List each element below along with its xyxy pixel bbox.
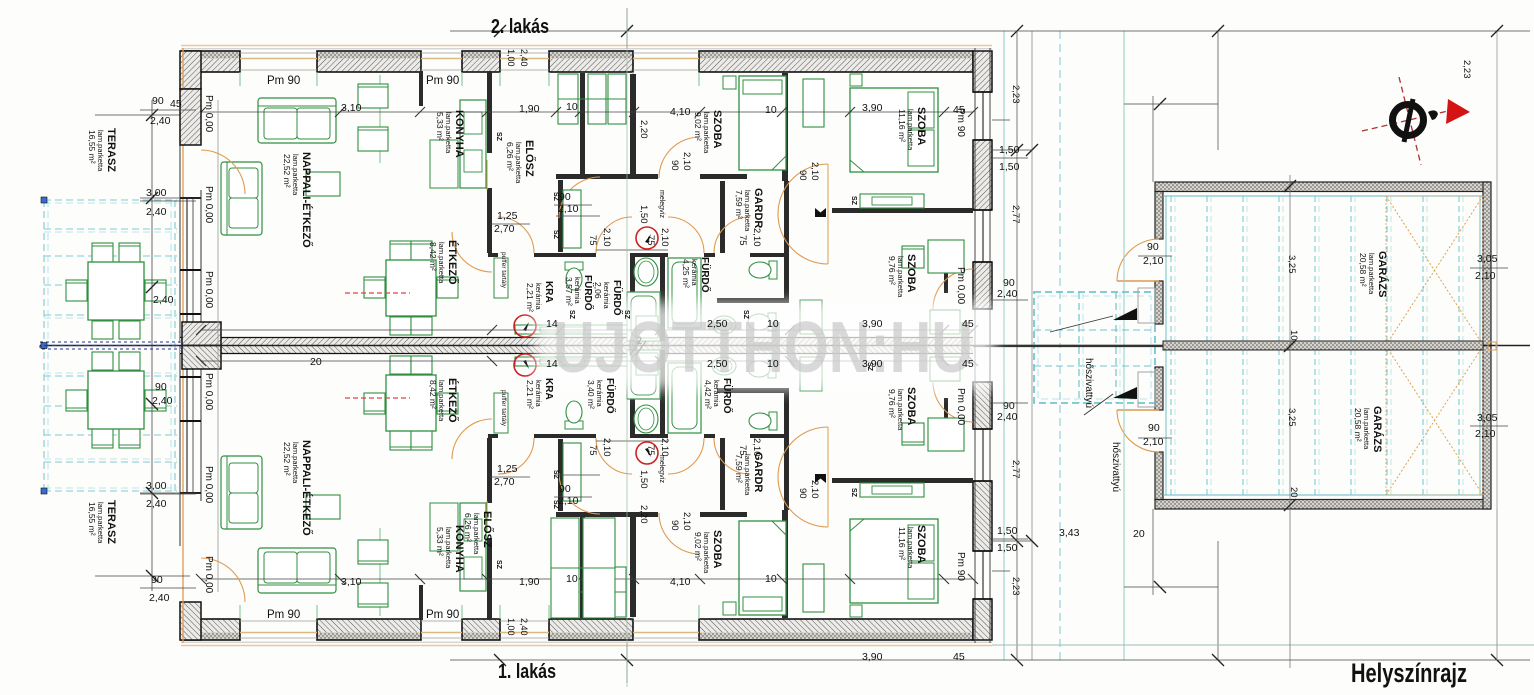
svg-text:SZ: SZ (568, 310, 575, 320)
svg-text:10: 10 (767, 318, 779, 330)
svg-text:3,90: 3,90 (862, 358, 883, 370)
svg-text:22,52 m²: 22,52 m² (282, 442, 292, 476)
svg-text:1,00: 1,00 (506, 618, 516, 636)
svg-text:1. lakás: 1. lakás (498, 661, 556, 683)
svg-text:2,40: 2,40 (997, 411, 1018, 423)
svg-text:3,25: 3,25 (1286, 408, 1297, 427)
svg-text:2,10: 2,10 (601, 438, 612, 457)
svg-text:TERASZ: TERASZ (105, 500, 117, 544)
svg-text:Pm 0,00: Pm 0,00 (955, 388, 966, 426)
svg-text:3,90: 3,90 (862, 102, 883, 114)
svg-text:GARDR: GARDR (752, 188, 764, 228)
svg-text:2,77: 2,77 (1010, 460, 1021, 479)
svg-text:9,76 m²: 9,76 m² (887, 256, 897, 285)
svg-text:SZOBA: SZOBA (915, 525, 927, 564)
svg-text:2,40: 2,40 (146, 206, 167, 218)
svg-text:NAPPALI-ÉTKEZŐ: NAPPALI-ÉTKEZŐ (300, 440, 313, 536)
svg-text:2,23: 2,23 (1461, 60, 1472, 79)
svg-text:Pm 0,00: Pm 0,00 (203, 466, 214, 504)
svg-text:90: 90 (797, 488, 808, 499)
svg-text:75: 75 (645, 445, 656, 456)
svg-text:7,59 m²: 7,59 m² (734, 190, 744, 219)
svg-text:2,40: 2,40 (519, 618, 529, 636)
svg-text:90: 90 (155, 381, 167, 393)
svg-text:2,21 m²: 2,21 m² (525, 283, 535, 312)
svg-text:16,55 m²: 16,55 m² (87, 130, 97, 164)
svg-text:Pm 90: Pm 90 (267, 75, 300, 87)
svg-text:90: 90 (1148, 422, 1160, 434)
svg-text:ÉTKEZŐ: ÉTKEZŐ (446, 378, 459, 423)
svg-text:GARDR: GARDR (752, 452, 764, 492)
svg-text:45: 45 (953, 104, 965, 116)
svg-text:2,10: 2,10 (809, 162, 820, 181)
svg-text:6,26 m²: 6,26 m² (505, 142, 515, 171)
svg-text:9,76 m²: 9,76 m² (887, 389, 897, 418)
svg-text:90: 90 (669, 520, 680, 531)
svg-text:1,25: 1,25 (497, 210, 518, 222)
svg-text:Pm 0,00: Pm 0,00 (203, 186, 214, 224)
svg-text:SZ: SZ (495, 560, 502, 570)
svg-text:SZOBA: SZOBA (905, 387, 917, 426)
svg-text:2,40: 2,40 (149, 592, 170, 604)
svg-text:2,10: 2,10 (1143, 255, 1164, 267)
svg-text:3,90: 3,90 (862, 651, 883, 663)
svg-text:90: 90 (1147, 241, 1159, 253)
svg-text:2,10: 2,10 (659, 228, 670, 247)
svg-text:TERASZ: TERASZ (105, 128, 117, 172)
svg-text:16,55 m²: 16,55 m² (87, 502, 97, 536)
svg-text:75: 75 (737, 235, 748, 246)
svg-text:1,50: 1,50 (997, 542, 1018, 554)
svg-text:3,57 m²: 3,57 m² (564, 277, 574, 306)
svg-text:8,42 m²: 8,42 m² (428, 242, 438, 271)
svg-text:1,00: 1,00 (506, 49, 516, 67)
svg-text:2,10: 2,10 (751, 438, 762, 457)
svg-text:NAPPALI-ÉTKEZŐ: NAPPALI-ÉTKEZŐ (300, 152, 313, 248)
svg-text:20: 20 (1288, 487, 1299, 498)
svg-text:Pm 0,00: Pm 0,00 (203, 373, 214, 411)
svg-text:SZOBA: SZOBA (915, 107, 927, 146)
svg-text:2,77: 2,77 (1010, 205, 1021, 224)
svg-text:2,20: 2,20 (638, 120, 649, 139)
svg-text:1,90: 1,90 (519, 103, 540, 115)
svg-text:2,10: 2,10 (1475, 270, 1496, 282)
svg-text:3,10: 3,10 (341, 576, 362, 588)
svg-text:2,21 m²: 2,21 m² (525, 380, 535, 409)
svg-text:hőszivattyú: hőszivattyú (1083, 358, 1094, 408)
svg-text:2,10: 2,10 (751, 228, 762, 247)
svg-text:SZ: SZ (552, 230, 559, 240)
svg-text:90: 90 (559, 483, 571, 495)
svg-text:KRA: KRA (543, 378, 554, 400)
svg-text:3,90: 3,90 (862, 318, 883, 330)
svg-text:45: 45 (962, 358, 974, 370)
svg-text:10: 10 (566, 573, 578, 585)
svg-text:2,10: 2,10 (809, 480, 820, 499)
svg-text:1,50: 1,50 (638, 470, 649, 489)
svg-text:90: 90 (669, 160, 680, 171)
svg-text:Pm 90: Pm 90 (955, 552, 966, 581)
svg-text:45: 45 (953, 651, 965, 663)
svg-text:KRA: KRA (543, 281, 554, 303)
svg-text:2,06: 2,06 (593, 282, 603, 299)
svg-text:Helyszínrajz: Helyszínrajz (1351, 658, 1467, 688)
svg-text:20,58 m²: 20,58 m² (1358, 253, 1368, 287)
svg-text:3,05: 3,05 (1477, 253, 1498, 265)
svg-text:FÜRDŐ: FÜRDŐ (611, 280, 624, 316)
svg-text:SZ: SZ (552, 470, 559, 480)
svg-text:3,40 m²: 3,40 m² (586, 380, 596, 409)
svg-text:75: 75 (645, 235, 656, 246)
svg-text:ELŐSZ: ELŐSZ (523, 140, 536, 177)
svg-text:1,50: 1,50 (638, 205, 649, 224)
svg-text:10: 10 (767, 358, 779, 370)
svg-text:2,70: 2,70 (494, 476, 515, 488)
svg-text:FÜRDŐ: FÜRDŐ (699, 257, 712, 293)
svg-text:3,10: 3,10 (341, 102, 362, 114)
svg-text:5,33 m²: 5,33 m² (435, 112, 445, 141)
svg-text:melegvíz: melegvíz (658, 190, 665, 219)
svg-text:10: 10 (566, 101, 578, 113)
svg-text:FÜRDŐ: FÜRDŐ (604, 378, 617, 414)
svg-text:Pm 0,00: Pm 0,00 (203, 556, 214, 594)
svg-text:10: 10 (765, 104, 777, 116)
svg-text:4,42 m²: 4,42 m² (703, 380, 713, 409)
svg-text:KONYHA: KONYHA (453, 110, 465, 158)
svg-text:2,10: 2,10 (659, 438, 670, 457)
svg-text:1,25: 1,25 (497, 463, 518, 475)
svg-text:2,40: 2,40 (153, 294, 174, 306)
svg-text:Pm 0,00: Pm 0,00 (955, 267, 966, 305)
svg-text:4,25 m²: 4,25 m² (681, 259, 691, 288)
svg-text:1,50: 1,50 (999, 161, 1020, 173)
svg-text:SZ: SZ (850, 488, 857, 498)
svg-text:SZOBA: SZOBA (711, 530, 723, 569)
svg-text:20,58 m²: 20,58 m² (1353, 408, 1363, 442)
svg-text:75: 75 (737, 445, 748, 456)
svg-text:2,50: 2,50 (707, 358, 728, 370)
svg-text:ÉTKEZŐ: ÉTKEZŐ (446, 240, 459, 285)
svg-text:10: 10 (1288, 330, 1299, 341)
svg-text:Pm 90: Pm 90 (426, 75, 459, 87)
svg-text:SZ: SZ (850, 196, 857, 206)
svg-text:1,50: 1,50 (997, 525, 1018, 537)
svg-text:90: 90 (151, 574, 163, 586)
svg-text:11,16 m²: 11,16 m² (897, 527, 907, 560)
svg-text:20: 20 (310, 356, 322, 368)
svg-text:FÜRDŐ: FÜRDŐ (721, 378, 734, 414)
svg-text:2,23: 2,23 (1010, 85, 1021, 104)
svg-text:75: 75 (587, 235, 598, 246)
svg-text:SZ: SZ (495, 132, 502, 142)
svg-text:2,50: 2,50 (707, 318, 728, 330)
svg-text:Pm 0,00: Pm 0,00 (203, 95, 214, 133)
svg-text:Pm 90: Pm 90 (267, 609, 300, 621)
svg-text:11,16 m²: 11,16 m² (897, 109, 907, 142)
svg-text:2,40: 2,40 (146, 498, 167, 510)
svg-text:ELŐSZ: ELŐSZ (481, 511, 494, 548)
svg-text:90: 90 (152, 95, 164, 107)
svg-text:SZ: SZ (552, 192, 559, 202)
svg-text:hőszivattyú: hőszivattyú (1110, 442, 1121, 492)
svg-text:melegvíz: melegvíz (658, 455, 665, 484)
svg-text:2. lakás: 2. lakás (491, 16, 549, 38)
svg-text:SZ: SZ (742, 310, 749, 320)
svg-text:Pm 90: Pm 90 (426, 609, 459, 621)
svg-text:9,02 m²: 9,02 m² (693, 532, 703, 561)
svg-text:45: 45 (170, 98, 182, 110)
svg-text:90: 90 (559, 191, 571, 203)
svg-text:20: 20 (1133, 528, 1145, 540)
svg-text:5,33 m²: 5,33 m² (435, 527, 445, 556)
svg-text:6,26 m²: 6,26 m² (463, 513, 473, 542)
svg-text:14: 14 (546, 318, 558, 330)
svg-text:2,70: 2,70 (494, 223, 515, 235)
svg-text:4,10: 4,10 (670, 576, 691, 588)
svg-text:45: 45 (962, 318, 974, 330)
svg-text:puffer tartály: puffer tartály (500, 252, 507, 289)
svg-text:10: 10 (765, 573, 777, 585)
svg-text:Pm 0,00: Pm 0,00 (203, 271, 214, 309)
svg-text:SZ: SZ (623, 310, 630, 320)
svg-text:1,90: 1,90 (519, 576, 540, 588)
svg-text:1,50: 1,50 (999, 144, 1020, 156)
svg-text:3,00: 3,00 (146, 480, 167, 492)
svg-text:3,05: 3,05 (1477, 412, 1498, 424)
svg-text:2,10: 2,10 (601, 228, 612, 247)
svg-text:SZOBA: SZOBA (711, 110, 723, 149)
svg-text:2,10: 2,10 (1475, 428, 1496, 440)
svg-text:2,10: 2,10 (681, 512, 692, 531)
svg-text:90: 90 (797, 170, 808, 181)
svg-text:9,02 m²: 9,02 m² (693, 112, 703, 141)
svg-text:2,40: 2,40 (997, 288, 1018, 300)
svg-text:2,23: 2,23 (1010, 577, 1021, 596)
svg-text:14: 14 (546, 358, 558, 370)
svg-text:2,40: 2,40 (152, 395, 173, 407)
svg-text:7,59 m²: 7,59 m² (734, 454, 744, 483)
svg-text:22,52 m²: 22,52 m² (282, 154, 292, 188)
svg-text:2,10: 2,10 (681, 152, 692, 171)
svg-text:2,40: 2,40 (150, 115, 171, 127)
svg-text:3,43: 3,43 (1059, 527, 1080, 539)
svg-text:3,00: 3,00 (146, 187, 167, 199)
svg-text:3,25: 3,25 (1286, 255, 1297, 274)
svg-text:2,20: 2,20 (638, 505, 649, 524)
svg-text:8,42 m²: 8,42 m² (428, 380, 438, 409)
svg-text:SZOBA: SZOBA (905, 254, 917, 293)
svg-text:GARÁZS: GARÁZS (1376, 251, 1389, 297)
svg-text:2,40: 2,40 (519, 49, 529, 67)
svg-text:75: 75 (587, 445, 598, 456)
svg-text:GARÁZS: GARÁZS (1371, 406, 1384, 452)
svg-text:puffer tartály: puffer tartály (500, 390, 507, 427)
svg-text:UJOTTHON:HU: UJOTTHON:HU (553, 308, 973, 388)
svg-text:4,10: 4,10 (670, 106, 691, 118)
